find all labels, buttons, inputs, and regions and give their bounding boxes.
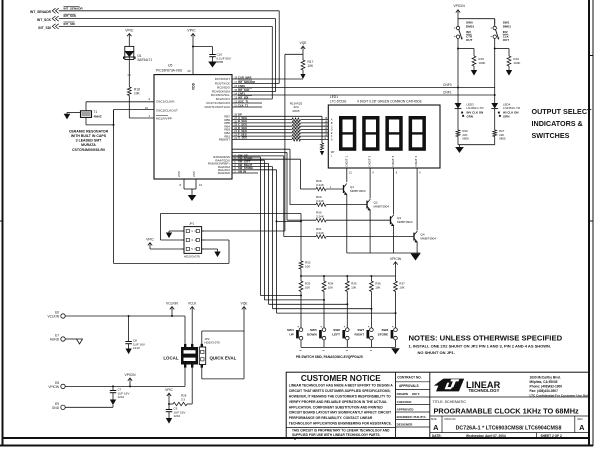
svg-text:Phone: (408)432-1900: Phone: (408)432-1900	[530, 384, 563, 388]
diode D1 BAT54LT1	[124, 42, 153, 66]
ground (switches)	[391, 348, 400, 354]
pin RA3/AN3/VREF+ / wire SW_LEFT	[208, 160, 269, 166]
ground (JP1 pin1)	[166, 233, 172, 239]
svg-text:NOTES: UNLESS OTHERWISE SPECI: NOTES: UNLESS OTHERWISE SPECIFIED	[409, 333, 563, 342]
label PB switch	[296, 355, 363, 359]
pin RB5 / wire B_SEG	[224, 119, 328, 125]
svg-text:QUICK EVAL: QUICK EVAL	[210, 356, 237, 361]
svg-text:10K: 10K	[305, 286, 310, 290]
svg-text:RA0/AN0: RA0/AN0	[218, 171, 230, 175]
power VPIC (JP1 pin5)	[146, 238, 184, 249]
ground (R15)	[471, 70, 477, 76]
ground (T1)	[64, 112, 81, 119]
wire VSS pins to ground	[180, 179, 203, 195]
svg-text:OUTPUT SELECT: OUTPUT SELECT	[532, 107, 593, 116]
resistor R18 10K	[127, 87, 140, 96]
power VPICIN (pull-ups)	[390, 257, 402, 276]
svg-text:APPROVED: APPROVED	[397, 407, 415, 411]
svg-text:1630 McCarthy Blvd.: 1630 McCarthy Blvd.	[530, 375, 561, 379]
wire JP1-3 to R32	[161, 214, 302, 262]
pin RC4/SDI/SDA / wire INT_SCK	[212, 88, 276, 94]
svg-text:DIGIT 1: DIGIT 1	[345, 155, 349, 166]
wire INT_SENADR	[59, 11, 279, 84]
svg-text:PROGRAMABLE CLOCK 1KHz TO 68MH: PROGRAMABLE CLOCK 1KHz TO 68MHz	[434, 407, 580, 416]
svg-text:INT_SDI: INT_SDI	[38, 26, 51, 30]
LED LED4	[491, 95, 520, 118]
svg-text:RC7/RX/DT: RC7/RX/DT	[215, 77, 230, 81]
label note 1	[409, 344, 552, 355]
label QUICK EVAL	[210, 356, 237, 361]
svg-text:3 LEADED SMT: 3 LEADED SMT	[76, 138, 103, 142]
connector JP2 HD2X3-079 (LOCAL/QUICK EVAL)	[181, 337, 220, 368]
svg-text:DIGIT 3: DIGIT 3	[391, 155, 395, 166]
approvals column	[396, 376, 430, 427]
node VQE (R17)	[300, 41, 308, 54]
svg-text:CNF1: CNF1	[443, 91, 452, 95]
svg-text:DP: DP	[331, 150, 335, 154]
svg-text:10K: 10K	[328, 286, 333, 290]
power VPICIN (switch rail)	[453, 4, 465, 19]
svg-text:CNF0: CNF0	[443, 83, 452, 87]
svg-text:0805: 0805	[499, 137, 506, 141]
switch SW8 STORE	[378, 326, 398, 350]
svg-text:MURATA: MURATA	[81, 143, 96, 147]
svg-text:AN_IN: AN_IN	[238, 169, 246, 173]
svg-text:VPIC: VPIC	[187, 29, 196, 33]
svg-text:OSC2/CLKOUT: OSC2/CLKOUT	[156, 108, 178, 112]
wire switch fan	[260, 295, 396, 315]
pin MCLR/VPP	[148, 114, 171, 120]
svg-text:10K: 10K	[399, 286, 404, 290]
resistor R16 100K	[507, 56, 520, 70]
svg-text:VERIFY PROPER AND RELIABLE OPE: VERIFY PROPER AND RELIABLE OPERATION IN …	[289, 400, 387, 404]
svg-text:INT_SENADR: INT_SENADR	[30, 10, 52, 14]
svg-text:VQE: VQE	[241, 301, 249, 305]
capacitor C9 1UF 16V 1210	[166, 404, 186, 418]
capacitor C8 1UF 16V 1210	[125, 315, 144, 350]
transistor Q1 MMBT3904	[326, 184, 366, 254]
switch SW7 RIGHT	[354, 326, 373, 350]
svg-text:CAR_MAR: CAR_MAR	[238, 75, 251, 79]
svg-text:3.24K: 3.24K	[316, 231, 324, 235]
svg-text:DC726A-1 * LTC6903CMS8/ LTC690: DC726A-1 * LTC6903CMS8/ LTC6904CMS8	[456, 425, 562, 431]
resistor R34 10K	[322, 276, 334, 292]
wire quick-eval box	[202, 331, 244, 379]
svg-text:CSTCR4M00G53-R0: CSTCR4M00G53-R0	[72, 148, 105, 152]
wire INT_SCK	[59, 19, 276, 92]
resistor R28A 3.3	[168, 394, 192, 406]
resistor R33 10K	[299, 276, 311, 292]
wire Q3 base net	[232, 152, 316, 220]
wire LED3-R26	[457, 109, 459, 130]
svg-text:VSS: VSS	[177, 171, 181, 177]
svg-text:CUSTOMER NOTICE: CUSTOMER NOTICE	[301, 374, 381, 383]
svg-text:VPICIN: VPICIN	[48, 385, 59, 389]
svg-text:ENGINEER: PHILIP K.: ENGINEER: PHILIP K.	[397, 415, 427, 419]
wire JP1 pin1 to ground	[169, 231, 184, 233]
svg-text:VPICIN: VPICIN	[125, 373, 137, 377]
svg-text:SIZE: SIZE	[431, 417, 437, 421]
svg-text:0805: 0805	[462, 137, 469, 141]
ground (U5 VSS)	[188, 195, 197, 201]
wire INT_SDI	[59, 26, 272, 99]
svg-text:NO SHUNT ON JP1.: NO SHUNT ON JP1.	[418, 350, 455, 355]
svg-text:10K: 10K	[351, 286, 356, 290]
power VPIC (VDD)	[187, 29, 196, 42]
resistor R26 22K 0805	[456, 129, 469, 145]
switch SW4 UP	[287, 326, 303, 350]
svg-text:GRN: GRN	[467, 114, 473, 118]
title block frame	[286, 372, 589, 438]
wire D1-R18	[128, 66, 132, 88]
svg-text:Milpitas, CA 95035: Milpitas, CA 95035	[530, 380, 558, 384]
ground (R16)	[506, 70, 512, 76]
pin RC3/SCK/SCL / wire CNF1	[211, 91, 495, 97]
svg-text:CIRCUIT BOARD LAYOUT MAY SIGNI: CIRCUIT BOARD LAYOUT MAY SIGNIFICANTLY A…	[289, 411, 391, 415]
svg-text:100K: 100K	[513, 61, 520, 65]
resonator T1 4MHZ	[81, 110, 102, 118]
display digit 1 segments	[340, 118, 355, 149]
size/dwg/rev row	[430, 416, 589, 433]
svg-text:PERFORMANCE OR RELIABILITY. C: PERFORMANCE OR RELIABILITY. CONTACT LINE…	[289, 416, 373, 420]
svg-text:1210: 1210	[133, 346, 140, 350]
svg-text:A: A	[433, 423, 439, 432]
svg-text:REV: REV	[578, 417, 584, 421]
pin RB7 / wire DP	[224, 113, 322, 143]
label OUTPUT SELECT INDICATORS & SWITCHES	[532, 107, 593, 140]
resistor DP net	[320, 143, 324, 156]
display digit 4 segments	[410, 118, 425, 149]
wire SW0 to R15	[457, 48, 474, 57]
svg-text:VPICIN: VPICIN	[453, 4, 465, 8]
svg-text:SWITCHES: SWITCHES	[532, 131, 570, 140]
svg-text:VPIC: VPIC	[125, 29, 134, 33]
resistor R31 3.24K	[316, 227, 326, 239]
svg-text:DOWN: DOWN	[307, 332, 318, 336]
wire to JP2 pin1	[184, 316, 186, 344]
node VPICIN	[125, 373, 137, 388]
wire R34 to SW5	[323, 292, 325, 328]
switch SW0 DM01	[454, 19, 475, 49]
resistor R36 10K	[370, 276, 382, 292]
svg-text:U5: U5	[168, 64, 172, 68]
svg-text:0805: 0805	[217, 60, 224, 64]
svg-text:VCLKIN: VCLKIN	[166, 301, 179, 305]
svg-text:INT_SENADR: INT_SENADR	[64, 6, 84, 10]
wire R33 to SW4	[300, 292, 302, 328]
display bottom pins	[347, 168, 422, 231]
svg-text:Fax: (408)434-0507: Fax: (408)434-0507	[530, 389, 559, 393]
svg-text:DWG NO.: DWG NO.	[445, 417, 457, 421]
wire R37 to SW8	[395, 292, 397, 328]
transistor Q2 MMBT3904	[326, 199, 389, 253]
svg-text:10K: 10K	[308, 64, 315, 68]
svg-text:LINEAR TECHNOLOGY HAS MADE A B: LINEAR TECHNOLOGY HAS MADE A BEST EFFORT…	[289, 384, 394, 388]
svg-text:Wednesday, April 07, 2004: Wednesday, April 07, 2004	[466, 434, 506, 438]
ground (C10)	[208, 62, 217, 68]
connector E9 GND	[52, 402, 113, 410]
svg-text:VQE: VQE	[300, 41, 308, 45]
svg-text:20: 20	[187, 69, 191, 73]
svg-text:CNF0: CNF0	[238, 84, 246, 88]
switch SW5 DOWN	[307, 326, 326, 350]
wire JP1 pin6 to ground	[202, 249, 218, 252]
svg-text:SHEET 2 OF 2: SHEET 2 OF 2	[541, 434, 562, 438]
pin RA1/AN1 / wire SW_STORE	[218, 166, 277, 172]
node VCLK	[188, 301, 197, 312]
svg-text:RB0/INT: RB0/INT	[219, 138, 230, 142]
pin OSC1/CLKIN	[148, 97, 174, 103]
svg-text:HD2X3-079: HD2X3-079	[184, 254, 200, 258]
resistor R15 100K	[472, 56, 485, 70]
wire R35 to SW6	[346, 292, 348, 328]
svg-text:VPIC: VPIC	[165, 388, 173, 392]
wire LED4-R27	[494, 109, 496, 130]
svg-text:HOWEVER, IT REMAINS THE CUSTOM: HOWEVER, IT REMAINS THE CUSTOMER'S RESPO…	[289, 394, 391, 398]
svg-text:10: 10	[145, 106, 149, 110]
wire C10 branch	[192, 46, 213, 55]
svg-text:3.3: 3.3	[181, 397, 185, 401]
svg-text:3.24K: 3.24K	[316, 199, 324, 203]
svg-text:3.24K: 3.24K	[316, 183, 324, 187]
resistor R17 10K	[300, 54, 314, 79]
node VCLKIN	[166, 301, 179, 317]
svg-text:OSC1/CLKIN: OSC1/CLKIN	[156, 99, 174, 103]
wire R17 to JP1 pin2	[202, 54, 303, 231]
connector E6 VCLKIN	[47, 310, 185, 318]
svg-text:GRN: GRN	[503, 114, 509, 118]
wire emitter rail	[347, 252, 421, 254]
svg-text:KM T.: KM T.	[412, 392, 420, 396]
ground (C9)	[166, 418, 172, 424]
ground (E7 AGND)	[76, 339, 83, 344]
svg-text:100K: 100K	[478, 61, 485, 65]
ground (LEDs)	[455, 145, 464, 153]
connector JP1 HD2X3-079	[182, 221, 205, 258]
svg-text:AGND: AGND	[50, 338, 60, 342]
pin RB6 / wire A_SEG	[224, 116, 328, 122]
svg-text:DM01: DM01	[466, 24, 475, 28]
capacitor C10 0.1UF 50V 0805	[209, 53, 231, 65]
svg-text:WITH BUILT IN CAPS: WITH BUILT IN CAPS	[71, 134, 107, 138]
wire R36 to SW7	[370, 292, 372, 328]
svg-text:LED1: LED1	[330, 95, 338, 99]
node INT_SDI	[38, 22, 75, 30]
connector E7 AGND	[50, 333, 76, 341]
connector E8 VPICIN	[48, 381, 185, 389]
svg-text:INT_SDI: INT_SDI	[64, 22, 76, 26]
svg-text:INT_SCK: INT_SCK	[37, 18, 52, 22]
svg-text:LTC-5723G: LTC-5723G	[330, 100, 347, 104]
svg-text:INT_SCK: INT_SCK	[238, 88, 250, 92]
logo Linear Technology	[434, 379, 501, 393]
pin RB3 / wire D_SEG	[224, 126, 328, 132]
resistor R30 3.24K	[316, 210, 326, 222]
wire Q4 base net	[232, 156, 316, 237]
svg-text:0805: 0805	[293, 109, 300, 113]
pin RB4 / wire C_SEG	[224, 123, 328, 129]
display digit 3 segments	[387, 118, 402, 149]
wire pull-up rail	[300, 275, 396, 277]
resistor R37 10K	[394, 276, 406, 292]
display LED1 LTC-5723G 4-digit	[328, 95, 440, 168]
date row	[432, 433, 562, 438]
pin RB1 / wire F_SEG	[224, 132, 328, 138]
ground (emitter rail)	[411, 254, 421, 261]
node INT_SCK	[37, 14, 77, 22]
wire bus RA to switches	[260, 157, 276, 313]
svg-text:OUT: OUT	[503, 38, 510, 42]
svg-text:VPICIN: VPICIN	[390, 257, 402, 261]
svg-text:VDD: VDD	[192, 82, 196, 90]
wire SW1 to R16	[494, 48, 509, 57]
svg-text:HD2X3-079: HD2X3-079	[205, 341, 220, 345]
wire LED ground rail	[458, 144, 495, 146]
svg-text:DATE:: DATE:	[432, 434, 442, 438]
svg-text:TECHNOLOGY APPLICATIONS ENGINE: TECHNOLOGY APPLICATIONS ENGINEERING FOR …	[289, 422, 392, 426]
svg-text:CHECKED: CHECKED	[397, 400, 413, 404]
svg-text:3.24K: 3.24K	[316, 214, 324, 218]
svg-text:MMBT3904: MMBT3904	[397, 220, 413, 224]
svg-text:VSS: VSS	[192, 171, 196, 177]
svg-text:JP1: JP1	[189, 221, 195, 225]
pin RA0/AN0 / wire AN_IN	[218, 169, 258, 175]
wire VDD	[187, 42, 193, 75]
wire bus tap	[276, 220, 303, 222]
label CNF0	[443, 83, 452, 87]
label DIGIT 3	[391, 155, 395, 166]
label DIGIT 4	[414, 155, 418, 166]
pin OSC2/CLKOUT	[145, 106, 178, 112]
pin RB2 / wire E_SEG	[224, 129, 328, 135]
svg-text:1210: 1210	[174, 414, 181, 418]
svg-text:DIGIT 2: DIGIT 2	[368, 155, 372, 166]
label address	[530, 375, 590, 397]
svg-text:SUPPLIED FOR USE WITH LINEAR T: SUPPLIED FOR USE WITH LINEAR TECHNOLOGY …	[292, 433, 381, 437]
svg-text:LEFT: LEFT	[332, 332, 340, 336]
resistor R28 3.24K	[316, 179, 332, 191]
svg-text:MMBT3904: MMBT3904	[421, 237, 437, 241]
svg-text:DRAWN: DRAWN	[397, 392, 408, 396]
wire Q2 base net	[232, 149, 316, 204]
svg-text:1. INSTALL ONE 2X2 SHUNT ON J: 1. INSTALL ONE 2X2 SHUNT ON JP2 PIN 1 AN…	[409, 344, 552, 349]
svg-text:TITLE: SCHEMATIC: TITLE: SCHEMATIC	[433, 400, 467, 404]
resistor R32 10K	[299, 261, 311, 277]
label DIGIT 1	[345, 155, 349, 166]
svg-text:RIGHT: RIGHT	[354, 332, 364, 336]
wire switch supply rail	[458, 19, 495, 25]
svg-text:1210: 1210	[118, 395, 125, 399]
svg-text:CLK_T1: CLK_T1	[238, 103, 249, 107]
ground (JP1 pin6)	[214, 252, 220, 258]
wire SW0 to CNF0	[457, 49, 459, 89]
svg-text:VPIC: VPIC	[146, 238, 154, 242]
pin RA5/AN4/SS / wire SW_UP	[213, 153, 260, 159]
pin RC0/T1OSO/T1CKI / wire CLK_T1	[205, 103, 262, 109]
svg-text:INT_SENADR: INT_SENADR	[238, 80, 255, 84]
pin RC6/TX/CK / wire INT_SENADR	[215, 80, 279, 86]
wire VCLK to JP2 pin3	[191, 313, 193, 344]
svg-text:CONTRACT NO.: CONTRACT NO.	[397, 376, 422, 380]
svg-text:MMBT3904: MMBT3904	[374, 205, 390, 209]
svg-text:OSC_T1: OSC_T1	[238, 99, 249, 103]
svg-text:VCLKIN: VCLKIN	[47, 315, 59, 319]
wire SW1 to CNF1	[494, 49, 496, 97]
display digit 2 segments	[363, 118, 378, 149]
svg-text:4MHZ: 4MHZ	[94, 114, 102, 118]
pin RA2/AN2 / wire SW_RIGHT	[218, 163, 273, 169]
svg-text:GND: GND	[52, 406, 60, 410]
wire OSC2	[86, 110, 154, 125]
node VQE	[241, 301, 249, 312]
wire JP2 pin2 to VPICIN rail	[184, 368, 186, 387]
svg-text:INDICATORS &: INDICATORS &	[532, 119, 583, 128]
svg-text:CIRCUIT THAT MEETS CUSTOMER-SU: CIRCUIT THAT MEETS CUSTOMER-SUPPLIED SPE…	[289, 389, 391, 393]
svg-text:MMBT3904: MMBT3904	[350, 189, 366, 193]
pin RC1/T1OSI/CCP2 / wire OSC_T1	[207, 99, 262, 105]
label CNF1	[443, 91, 452, 95]
svg-text:VCLK: VCLK	[188, 301, 197, 305]
wire OSC1	[86, 102, 154, 111]
label DIGIT 2	[368, 155, 372, 166]
power VPIC (local)	[165, 388, 173, 404]
wire JP2 pin4 to R28	[191, 368, 193, 404]
wire Q1 base net	[232, 159, 316, 189]
svg-text:TECHNOLOGY: TECHNOLOGY	[469, 388, 500, 393]
pin RC2/CCP1 / wire INT_SDI	[216, 95, 273, 101]
wire MCLR net	[129, 96, 154, 119]
capacitor C7 1UF 16V 1210	[110, 385, 130, 399]
svg-text:10K: 10K	[134, 92, 141, 96]
svg-text:MCLR/VPP: MCLR/VPP	[156, 116, 172, 120]
svg-text:STORE: STORE	[378, 332, 389, 336]
ground (C8)	[125, 349, 131, 355]
svg-text:10K: 10K	[375, 286, 380, 290]
label LOCAL	[163, 356, 178, 361]
pin RC7/RX/DT / wire CAR_MAR	[215, 75, 303, 81]
pin RB0/INT / wire G_SEG	[219, 136, 328, 142]
svg-text:LOCAL: LOCAL	[163, 356, 178, 361]
transistor Q3 MMBT3904	[326, 215, 413, 253]
op-amp U5 PIC16F873A-I/SS (MCU)	[154, 64, 232, 180]
resistor R29 3.24K	[316, 195, 326, 207]
svg-text:APPLICATION. COMPONENT SUBSTI: APPLICATION. COMPONENT SUBSTITUTION AND …	[289, 405, 384, 409]
resistor R27 22K 0805	[493, 129, 506, 145]
wire OSC2 to JP1 pin4 loop	[113, 110, 230, 264]
svg-text:PB SWITCH SMD, PANASONIC-EVQPP: PB SWITCH SMD, PANASONIC-EVQPPDA25	[296, 355, 363, 359]
label NOTES	[409, 333, 563, 342]
svg-text:INT_SCK: INT_SCK	[64, 14, 78, 18]
svg-text:BAT54LT1: BAT54LT1	[138, 58, 153, 62]
title row	[430, 397, 589, 416]
svg-text:4 DIGIT 0.28" GREEN COMMON CAT: 4 DIGIT 0.28" GREEN COMMON CATHODE	[357, 100, 423, 104]
svg-text:G_SEG: G_SEG	[238, 136, 247, 140]
svg-text:UP: UP	[289, 332, 293, 336]
svg-text:APPROVALS: APPROVALS	[399, 384, 419, 388]
svg-text:PIC16F873A-I/SS: PIC16F873A-I/SS	[156, 69, 183, 73]
svg-text:CERAMIC RESONATOR: CERAMIC RESONATOR	[69, 129, 109, 133]
node INT_SENADR	[30, 6, 84, 14]
customer notice box	[286, 374, 395, 437]
wire switch ground rail	[301, 346, 396, 348]
label T1 ceramic resonator	[69, 129, 109, 151]
svg-text:10K: 10K	[305, 265, 310, 269]
ground (C7/E9)	[110, 400, 116, 406]
power VPIC (D1)	[125, 29, 134, 42]
svg-text:CNF1: CNF1	[238, 91, 246, 95]
svg-text:RC0/T1OSO/T1CKI: RC0/T1OSO/T1CKI	[205, 105, 231, 109]
svg-text:DESIGNER: DESIGNER	[397, 422, 414, 426]
